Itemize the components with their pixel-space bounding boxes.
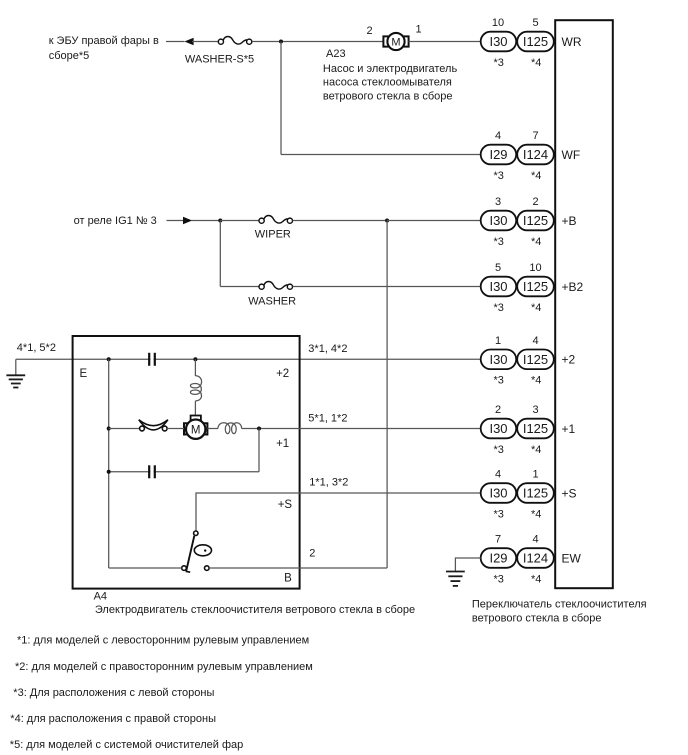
- svg-text:I30: I30: [489, 486, 507, 501]
- svg-text:4: 4: [495, 130, 501, 142]
- svg-text:3: 3: [532, 404, 538, 416]
- svg-text:сборе*5: сборе*5: [49, 50, 90, 62]
- svg-text:*3: *3: [493, 573, 503, 585]
- ground G2: [446, 572, 465, 586]
- connector pair I30/I125 row +B: [481, 211, 554, 231]
- wire rail to breaker: [109, 428, 140, 430]
- circuit breaker (bimetal) contacts: [139, 420, 168, 431]
- svg-text:насоса стеклоомывателя: насоса стеклоомывателя: [323, 77, 452, 89]
- svg-text:*4: *4: [531, 170, 541, 182]
- svg-text:Электродвигатель стеклоочистит: Электродвигатель стеклоочистителя ветров…: [95, 604, 415, 616]
- svg-text:1: 1: [532, 469, 538, 481]
- svg-text:1: 1: [495, 335, 501, 347]
- svg-text:I29: I29: [489, 147, 507, 162]
- svg-text:*4: *4: [531, 573, 541, 585]
- svg-text:I124: I124: [523, 551, 548, 566]
- wire WIPER fuse to node N3: [293, 220, 388, 222]
- connector pair I30/I125 row +1: [481, 419, 554, 439]
- svg-text:+B: +B: [562, 214, 577, 228]
- svg-text:5: 5: [532, 17, 538, 29]
- svg-text:ветрового стекла в сборе: ветрового стекла в сборе: [323, 90, 453, 102]
- connector pair I30/I125 row +S: [481, 483, 554, 503]
- wire left rail of box A4: [108, 359, 110, 568]
- svg-text:M: M: [191, 424, 201, 436]
- svg-text:I125: I125: [523, 34, 548, 49]
- fuse WIPER: [259, 216, 293, 224]
- svg-text:Насос и электродвигатель: Насос и электродвигатель: [323, 63, 458, 75]
- connector pair I30/I125 row +2: [481, 350, 554, 370]
- svg-text:+1: +1: [562, 422, 576, 436]
- svg-text:A4: A4: [94, 590, 107, 602]
- svg-text:2: 2: [495, 404, 501, 416]
- node N3 junction: [385, 219, 389, 223]
- svg-text:4: 4: [495, 469, 501, 481]
- bus wire N3 down to park switch wire: [386, 221, 388, 569]
- node N2 junction: [218, 219, 222, 223]
- wire switch contact B to bus: [209, 567, 387, 569]
- svg-text:I30: I30: [489, 34, 507, 49]
- svg-text:1*1, 3*2: 1*1, 3*2: [309, 476, 348, 488]
- wire L1 to motor M1 terminal: [194, 401, 196, 416]
- svg-text:2: 2: [366, 25, 372, 37]
- motor A23 washer pump: [383, 33, 408, 50]
- wire breaker to motor M1: [167, 428, 184, 430]
- wire branch to fuse WASHER: [220, 286, 259, 288]
- svg-text:3*1, 4*2: 3*1, 4*2: [308, 343, 347, 355]
- wiper switch block (right rectangle): [555, 20, 613, 588]
- wire I29 EW to ground drop: [455, 558, 480, 572]
- wire motor pin1 to connector I30 WR: [409, 41, 481, 43]
- wire arrow to node N2: [191, 220, 220, 222]
- svg-text:*4: *4: [531, 444, 541, 456]
- wire N2 down to WASHER branch: [219, 221, 221, 287]
- svg-text:*1: для моделей с левосторонни: *1: для моделей с левосторонним рулевым …: [17, 635, 309, 647]
- svg-text:2: 2: [309, 548, 315, 560]
- svg-text:*3: *3: [493, 170, 503, 182]
- svg-text:I30: I30: [489, 352, 507, 367]
- wire bottom capacitor row: [109, 471, 259, 473]
- svg-text:10: 10: [529, 262, 541, 274]
- svg-text:I30: I30: [489, 421, 507, 436]
- svg-text:*2: для моделей с правосторонн: *2: для моделей с правосторонним рулевым…: [15, 661, 313, 673]
- node N8 junction: [107, 470, 111, 474]
- svg-text:*3: *3: [493, 302, 503, 314]
- svg-text:4: 4: [532, 335, 538, 347]
- wire WASHER fuse to connector I30 +B2: [293, 286, 481, 288]
- wire fuse to node N1: [252, 41, 384, 43]
- wire left ground to connector I30 +2 (through box A4): [16, 358, 481, 360]
- motor assembly box A4: [73, 336, 300, 589]
- svg-text:*4: *4: [531, 508, 541, 520]
- wire N3 to connector I30 +B: [387, 220, 481, 222]
- text: Насос и электродвигатель насоса стеклоомывателя ветрового стекла в сборе: [323, 63, 458, 102]
- connector pair I29/I124 row EW: [481, 548, 554, 568]
- caption: Переключатель стеклоочистителя ветрового стекла в сборе: [472, 599, 647, 625]
- capacitor C2: [149, 465, 155, 478]
- svg-text:WASHER: WASHER: [248, 295, 296, 307]
- svg-text:M: M: [391, 37, 400, 49]
- svg-text:ветрового стекла в сборе: ветрового стекла в сборе: [472, 613, 602, 625]
- svg-text:I29: I29: [489, 551, 507, 566]
- svg-text:*4: *4: [531, 302, 541, 314]
- svg-text:I30: I30: [489, 213, 507, 228]
- inductor L1 (vertical coil): [190, 376, 201, 401]
- svg-text:1: 1: [416, 24, 422, 36]
- svg-text:*3: *3: [493, 236, 503, 248]
- svg-text:3: 3: [495, 196, 501, 208]
- svg-text:от реле IG1 № 3: от реле IG1 № 3: [74, 215, 157, 227]
- svg-text:Переключатель стеклоочистителя: Переключатель стеклоочистителя: [472, 599, 647, 611]
- svg-text:7: 7: [532, 130, 538, 142]
- svg-text:+2: +2: [276, 368, 289, 380]
- svg-text:I125: I125: [523, 213, 548, 228]
- ground G1 drop: [15, 359, 17, 375]
- node N4 junction: [107, 357, 111, 361]
- svg-text:*3: *3: [493, 444, 503, 456]
- connector pair I29/I124 row WF: [481, 145, 554, 165]
- wire L2 to connector I30 +1: [242, 428, 481, 430]
- svg-text:7: 7: [495, 534, 501, 546]
- inductor L2 (horizontal coil): [218, 423, 242, 434]
- arrow pointing right from relay IG1: [183, 217, 192, 224]
- svg-text:+S: +S: [278, 499, 293, 511]
- svg-text:2: 2: [532, 196, 538, 208]
- svg-text:*4: *4: [531, 236, 541, 248]
- arrow pointing left to ECU: [184, 38, 193, 45]
- svg-text:WIPER: WIPER: [255, 229, 291, 241]
- wire N2 to fuse WIPER: [220, 220, 259, 222]
- wire motor M1 to inductor L2: [207, 428, 218, 430]
- svg-text:+1: +1: [276, 438, 289, 450]
- wire stub before arrow: [167, 220, 184, 222]
- svg-text:*3: Для расположения с левой с: *3: Для расположения с левой стороны: [13, 687, 214, 699]
- node N6 junction: [107, 427, 111, 431]
- motor M1 (wiper motor): [184, 416, 207, 439]
- fuse WASHER: [259, 282, 293, 290]
- wire N5 down to inductor L1: [194, 359, 196, 376]
- ground G1: [6, 375, 25, 387]
- svg-text:E: E: [80, 368, 88, 380]
- svg-text:WF: WF: [562, 148, 581, 162]
- svg-text:I125: I125: [523, 421, 548, 436]
- switch cam dot: [204, 549, 206, 551]
- svg-text:B: B: [284, 573, 292, 585]
- wire N7 down: [258, 429, 260, 472]
- svg-text:I125: I125: [523, 486, 548, 501]
- circuit breaker bimetal crescent: [139, 420, 168, 430]
- switch cam ellipse: [194, 545, 211, 556]
- svg-text:+2: +2: [562, 353, 576, 367]
- text: к ЭБУ правой фары в сборе*5: [49, 35, 159, 62]
- svg-text:*4: для расположения с правой: *4: для расположения с правой стороны: [10, 713, 216, 725]
- node N7 junction: [257, 427, 261, 431]
- wire arrow to fuse WASHER-S*5: [192, 41, 218, 43]
- svg-text:*4: *4: [531, 375, 541, 387]
- svg-text:10: 10: [492, 17, 504, 29]
- svg-text:I124: I124: [523, 147, 548, 162]
- fuse WASHER-S*5: [218, 37, 252, 45]
- svg-text:5*1, 1*2: 5*1, 1*2: [308, 412, 347, 424]
- wire to connector I29 WF: [281, 154, 481, 156]
- svg-text:4*1, 5*2: 4*1, 5*2: [17, 342, 56, 354]
- wire stub left of arrow (to right headlamp ECU): [166, 41, 185, 43]
- connector pair I30/I125 row +B2: [481, 277, 554, 297]
- park switch SW2: [182, 531, 212, 572]
- svg-text:*5: для моделей с системой очи: *5: для моделей с системой очистителей ф…: [10, 739, 243, 751]
- svg-text:к ЭБУ правой фары в: к ЭБУ правой фары в: [49, 35, 159, 47]
- svg-text:+S: +S: [562, 486, 577, 500]
- wire +S to park switch: [196, 493, 481, 531]
- svg-text:*4: *4: [531, 57, 541, 69]
- svg-text:A23: A23: [326, 48, 346, 60]
- svg-text:EW: EW: [562, 551, 582, 565]
- svg-text:I125: I125: [523, 352, 548, 367]
- connector pair I30/I125 row WR: [481, 32, 554, 52]
- capacitor C1: [149, 353, 155, 366]
- svg-text:WASHER-S*5: WASHER-S*5: [185, 53, 254, 65]
- node N1 junction: [279, 40, 283, 44]
- svg-text:I125: I125: [523, 279, 548, 294]
- svg-text:*3: *3: [493, 57, 503, 69]
- svg-text:WR: WR: [562, 35, 582, 49]
- svg-text:*3: *3: [493, 508, 503, 520]
- svg-text:4: 4: [532, 534, 538, 546]
- svg-text:5: 5: [495, 262, 501, 274]
- switch blade: [186, 536, 194, 571]
- svg-text:+B2: +B2: [562, 280, 584, 294]
- node N5 junction: [193, 357, 197, 361]
- wire rail to switch common: [109, 567, 182, 569]
- svg-text:*3: *3: [493, 375, 503, 387]
- switch blade foot: [186, 570, 191, 573]
- svg-text:I30: I30: [489, 279, 507, 294]
- wire node N1 down: [280, 42, 282, 155]
